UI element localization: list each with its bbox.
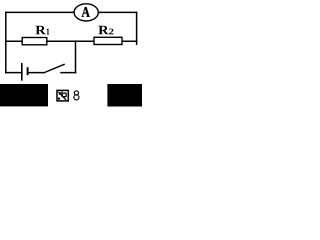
- ammeter label A: [82, 7, 90, 17]
- wire left vertical: [5, 12, 7, 72]
- switch blade (open): [44, 64, 65, 73]
- battery short plate (negative): [27, 67, 29, 75]
- wire center vertical junction to battery branch: [75, 41, 77, 72]
- wire right vertical: [136, 12, 138, 44]
- resistor R2 box: [94, 37, 122, 44]
- caption black block left: [0, 84, 48, 106]
- caption digit 8 (drawn): [74, 91, 79, 100]
- wire top-left segment: [6, 12, 137, 72]
- resistor R2 label R: [98, 26, 108, 35]
- wire top from ammeter to right corner: [98, 11, 137, 13]
- wire middle row right: [122, 40, 137, 42]
- wire top from left corner to ammeter: [6, 11, 75, 13]
- wire battery to switch pivot: [28, 72, 44, 74]
- resistor R1 box: [22, 38, 47, 45]
- caption black block right: [107, 84, 142, 107]
- battery long plate (positive): [21, 63, 23, 81]
- resistor R1 label R: [35, 26, 45, 35]
- wire middle row left: [6, 40, 22, 42]
- wire middle row center: [47, 40, 94, 42]
- resistor R2 label subscript 2: [109, 29, 113, 35]
- wire switch contact to center vertical: [61, 72, 76, 74]
- caption character 图 (drawn): [57, 90, 68, 101]
- resistor R1 label subscript 1: [47, 29, 49, 35]
- ammeter circle: [74, 4, 98, 21]
- wire bottom from left corner to battery: [6, 72, 22, 74]
